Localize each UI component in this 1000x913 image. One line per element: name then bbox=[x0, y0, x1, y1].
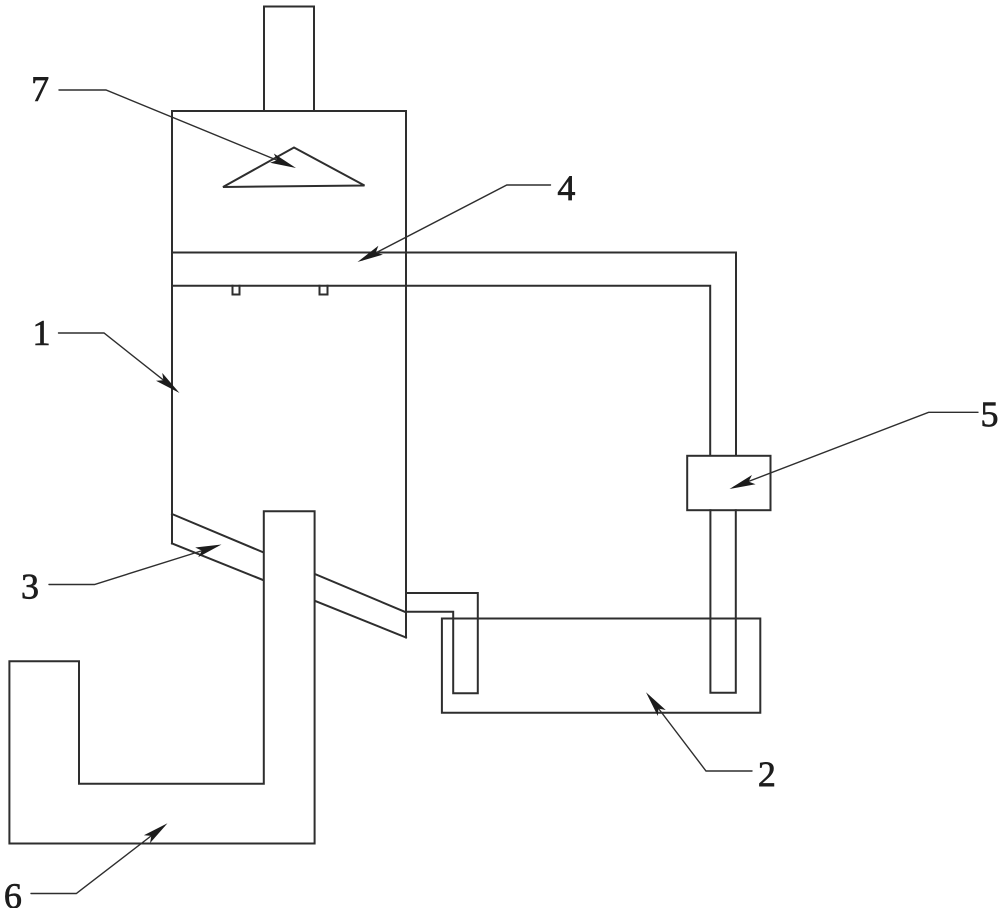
partition 4 upper line and outer right pipe wall bbox=[172, 253, 736, 456]
drain pipe from tank into tray bbox=[406, 593, 478, 693]
leader line 6 bbox=[31, 826, 164, 894]
arrowhead of leader 2 bbox=[642, 689, 666, 716]
duct 6 J-shaped outline bbox=[9, 511, 314, 843]
tank 1 outline bbox=[172, 111, 406, 638]
inlet pipe (top) bbox=[264, 7, 314, 112]
arrowhead of leader 5 bbox=[728, 475, 756, 494]
svg-text:7: 7 bbox=[31, 69, 49, 109]
svg-text:5: 5 bbox=[981, 394, 999, 434]
leader line 5 bbox=[734, 412, 978, 487]
tray 2 outline bbox=[442, 619, 760, 713]
arrowhead of leader 6 bbox=[144, 819, 171, 843]
arrowhead of leader 3 bbox=[195, 540, 223, 557]
arrowhead of leader 7 bbox=[270, 154, 298, 173]
float triangle 7 inside tank bbox=[223, 148, 365, 188]
leader line 1 bbox=[59, 333, 177, 390]
chute 3 upper slant line bbox=[172, 514, 406, 612]
svg-text:1: 1 bbox=[33, 313, 51, 353]
svg-text:2: 2 bbox=[758, 754, 776, 794]
svg-text:6: 6 bbox=[4, 876, 22, 908]
leader line 2 bbox=[649, 696, 752, 771]
arrowhead of leader 1 bbox=[156, 373, 183, 397]
hook tab A under partition bbox=[233, 286, 240, 295]
leader line 4 bbox=[362, 185, 551, 260]
partition 4 lower line and inner right pipe wall bbox=[172, 286, 710, 456]
leader line 3 bbox=[49, 546, 217, 585]
arrowhead of leader 4 bbox=[355, 246, 383, 267]
chute 3 lower slant line bbox=[172, 543, 406, 637]
hook tab B under partition bbox=[320, 286, 328, 295]
valve box 5 bbox=[687, 456, 770, 510]
svg-text:3: 3 bbox=[21, 566, 39, 606]
leader line 7 bbox=[59, 90, 291, 166]
svg-text:4: 4 bbox=[557, 168, 575, 208]
right pipe below valve into tray bbox=[710, 510, 735, 693]
